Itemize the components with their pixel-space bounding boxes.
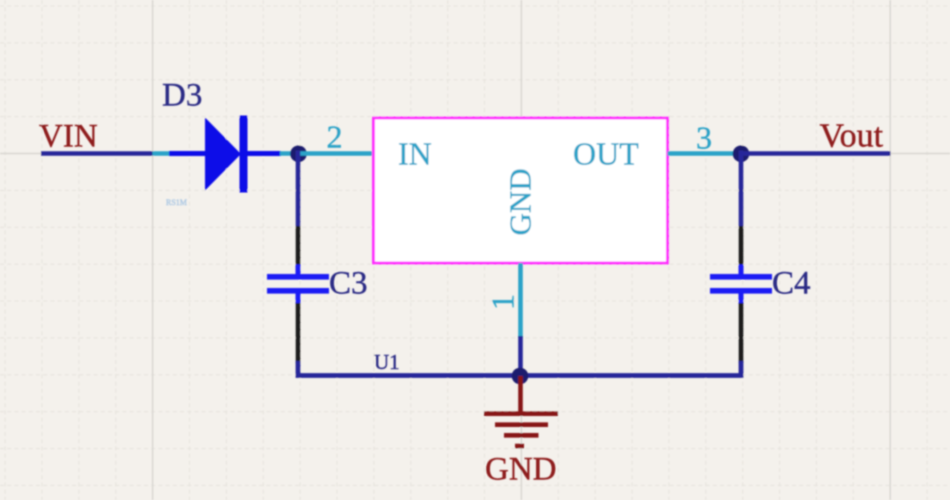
svg-text:U1: U1 — [374, 350, 400, 374]
wire output junction down to C4 — [739, 151, 744, 227]
svg-text:OUT: OUT — [573, 136, 639, 172]
svg-text:C4: C4 — [772, 266, 811, 302]
capacitor C3 bottom stub — [296, 293, 301, 304]
ground symbol bar 3 — [504, 433, 539, 438]
capacitor C4 top plate — [710, 274, 772, 280]
capacitor C3 bottom plate — [267, 288, 329, 294]
svg-text:Vout: Vout — [820, 118, 884, 155]
bottom wire C3 to C4 — [298, 361, 741, 376]
diode D3 pin 2 (cathode pin lead) — [280, 151, 299, 156]
svg-text:D3: D3 — [162, 78, 202, 114]
regulator U1 pin 2 lead — [299, 151, 373, 156]
wire junction to Vout — [741, 151, 891, 156]
svg-text:GND: GND — [503, 168, 538, 235]
ground symbol bar 2 — [495, 422, 548, 427]
regulator U1 pin 1 lead (GND pin) — [518, 263, 523, 338]
svg-text:VIN: VIN — [39, 119, 98, 155]
wire VIN to diode — [41, 151, 153, 156]
wire pin 1 to ground junction — [518, 336, 523, 376]
svg-text:2: 2 — [327, 119, 343, 155]
svg-text:3: 3 — [696, 120, 712, 156]
diode D3 cathode bar — [240, 116, 248, 193]
svg-text:RS1M: RS1M — [166, 198, 187, 207]
capacitor C3 pin 1 lead — [296, 226, 301, 266]
svg-text:C3: C3 — [329, 266, 368, 302]
diode D3 anode lead — [169, 151, 206, 156]
regulator U1 pin 3 lead — [668, 151, 742, 156]
ground symbol bar 4 — [515, 444, 524, 449]
capacitor C4 pin 1 lead — [739, 226, 744, 266]
wire junction node (output) — [733, 146, 750, 163]
wire junction node (ground) — [512, 368, 529, 385]
diode D3 pin 1 (anode pin lead) — [153, 151, 172, 156]
svg-text:1: 1 — [485, 294, 521, 310]
capacitor C4 bottom plate — [710, 288, 772, 294]
capacitor C3 top stub — [296, 265, 301, 276]
capacitor C4 pin 2 lead — [739, 303, 744, 363]
diode D3 body (triangle) — [205, 118, 241, 191]
svg-text:IN: IN — [398, 136, 432, 172]
capacitor C3 pin 2 lead — [296, 303, 301, 363]
ground symbol stem — [518, 376, 523, 412]
capacitor C4 top stub — [739, 265, 744, 276]
svg-text:GND: GND — [485, 452, 557, 488]
wire junction node (input) — [290, 146, 307, 163]
diode D3 cathode lead — [244, 151, 281, 156]
capacitor C4 bottom stub — [739, 293, 744, 304]
capacitor C3 top plate — [267, 274, 329, 280]
wire input junction down to C3 — [296, 151, 301, 227]
op-amp U1 regulator body — [374, 118, 668, 263]
ground symbol bar 1 — [484, 411, 558, 416]
